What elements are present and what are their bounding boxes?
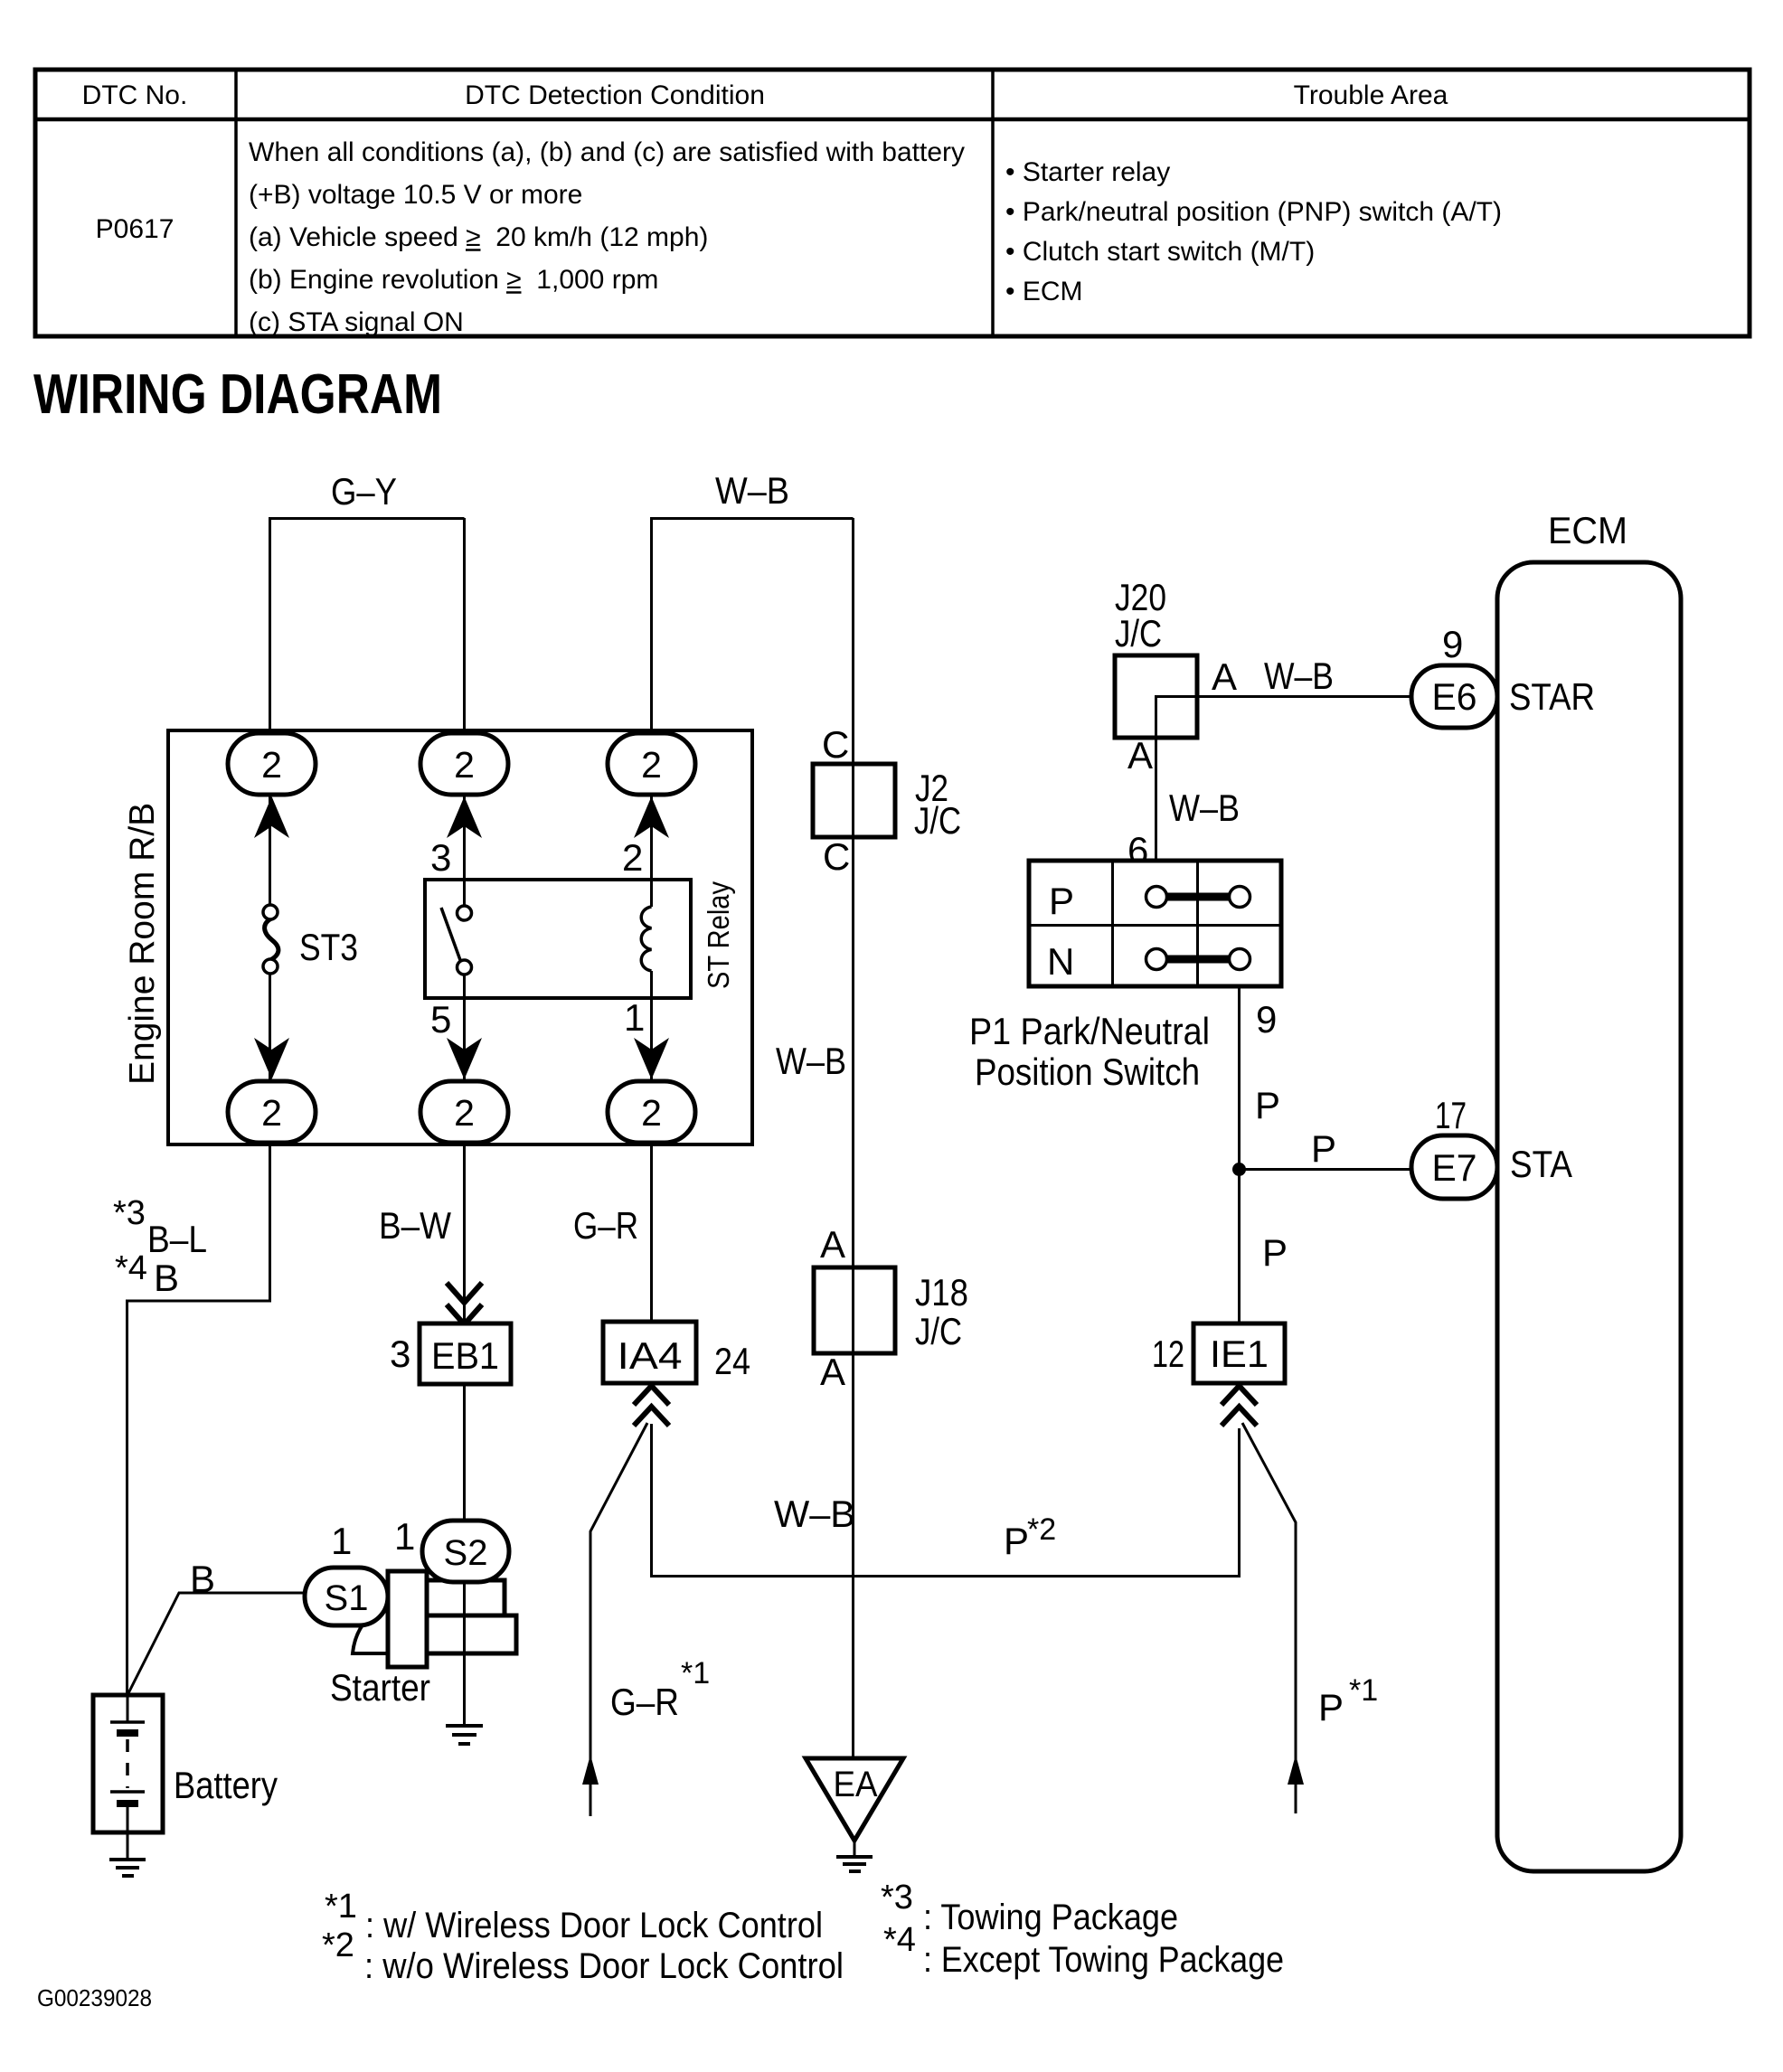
svg-text:G00239028: G00239028 [37, 1984, 152, 2011]
svg-text:Trouble Area: Trouble Area [1294, 80, 1448, 110]
svg-text:2: 2 [641, 744, 662, 786]
solid up arrow (col 3) [634, 796, 669, 838]
svg-text:2: 2 [641, 1092, 662, 1134]
wire J20 to E6 (W-B) [1156, 697, 1413, 739]
wire EA to ground [854, 1841, 856, 1856]
connector EB1 [420, 1323, 511, 1384]
wire starter to ground [463, 1582, 466, 1725]
svg-text:• ECM: • ECM [1005, 277, 1083, 306]
svg-text:P: P [1311, 1127, 1336, 1170]
svg-text:Battery: Battery [174, 1764, 278, 1806]
connector oval 2 (top, col 1) [228, 733, 316, 795]
wire column 4 W-B trunk down to EA ground [852, 518, 854, 1758]
wire column 2 (switch branch) [463, 518, 466, 1323]
svg-text:P0617: P0617 [96, 214, 175, 244]
svg-text:*4: *4 [883, 1921, 916, 1959]
svg-text:J/C: J/C [1115, 612, 1162, 655]
connector IA4 [603, 1322, 696, 1383]
svg-text:G–R: G–R [573, 1204, 638, 1247]
svg-text:G–R: G–R [610, 1681, 679, 1723]
svg-text:5: 5 [430, 998, 451, 1041]
connector E7 [1411, 1135, 1497, 1199]
connector IE1 [1193, 1323, 1285, 1383]
svg-text:12: 12 [1152, 1333, 1184, 1375]
ground EA triangle [806, 1758, 903, 1841]
svg-text:S2: S2 [444, 1533, 488, 1573]
wire W-B top loop (relay coil column to W-B trunk) [652, 519, 854, 733]
svg-text:2: 2 [622, 836, 643, 879]
svg-text:*3: *3 [113, 1194, 146, 1232]
solid down arrow (col 1) [254, 1038, 289, 1079]
svg-text:A: A [1212, 655, 1237, 698]
svg-text:*4: *4 [115, 1249, 147, 1287]
wire PNP pin 9 down to IE1 [1238, 986, 1241, 1323]
svg-text:W–B: W–B [1169, 786, 1240, 829]
junction J20 box [1115, 655, 1197, 738]
solid up arrow (col 2) [447, 796, 482, 838]
wire column 1 lower run to battery [127, 1143, 270, 1695]
connector S2 [422, 1521, 509, 1582]
solid down arrow (col 2) [447, 1038, 482, 1079]
svg-text:3: 3 [390, 1333, 410, 1375]
svg-text:N: N [1047, 940, 1074, 983]
svg-text:: w/o Wireless Door Lock Contr: : w/o Wireless Door Lock Control [364, 1946, 844, 1986]
svg-text:2: 2 [261, 1092, 282, 1134]
connector oval 2 (bottom, col 1) [228, 1081, 316, 1143]
P1 park/neutral position switch box [1029, 861, 1281, 986]
svg-text:(c) STA signal ON: (c) STA signal ON [249, 307, 464, 337]
ground symbol (EA) [836, 1857, 873, 1871]
wire S1 to battery (B) [127, 1593, 305, 1695]
svg-text:2: 2 [454, 744, 475, 786]
relay coil [641, 907, 651, 971]
svg-text:J/C: J/C [915, 1310, 962, 1352]
wire G-R *1 diagonal and drop [590, 1423, 647, 1816]
svg-text:W–B: W–B [774, 1493, 855, 1535]
double chevron below IA4 [634, 1386, 669, 1426]
svg-text:W–B: W–B [776, 1040, 846, 1082]
svg-text:EA: EA [834, 1765, 878, 1804]
svg-text:• Park/neutral position (PNP): • Park/neutral position (PNP) switch (A/… [1005, 197, 1502, 227]
arrowhead up (G-R *1 wire) [582, 1755, 599, 1785]
svg-text:C: C [822, 723, 849, 766]
table header text [82, 80, 1448, 110]
svg-text:EB1: EB1 [431, 1334, 499, 1377]
svg-text:*2: *2 [1027, 1512, 1056, 1547]
wire column 1 inside relay block (fuse branch) [269, 732, 271, 1301]
svg-text:1: 1 [394, 1515, 415, 1558]
svg-text:IE1: IE1 [1210, 1333, 1269, 1375]
ground symbol (starter) [446, 1726, 483, 1744]
svg-text:A: A [820, 1223, 845, 1266]
svg-text:C: C [823, 835, 850, 878]
svg-text:P: P [1049, 880, 1074, 922]
svg-text:1: 1 [624, 996, 645, 1039]
svg-text:A: A [820, 1351, 845, 1393]
solid up arrow (col 1) [254, 796, 289, 838]
starter body [353, 1571, 516, 1667]
svg-text:B–W: B–W [379, 1204, 451, 1247]
svg-text:A: A [1127, 734, 1153, 777]
svg-text:Starter: Starter [330, 1666, 430, 1709]
svg-text:STA: STA [1510, 1143, 1572, 1185]
svg-text:J18: J18 [915, 1271, 968, 1314]
svg-text:P: P [1255, 1084, 1280, 1126]
svg-text:3: 3 [430, 836, 451, 879]
table cell trouble area bullets [1005, 157, 1502, 306]
connector S1 [305, 1568, 388, 1625]
junction J2 box [813, 764, 895, 837]
wire G-Y top loop (fuse column to relay switch column) [270, 519, 465, 733]
svg-text:: w/ Wireless Door Lock Contro: : w/ Wireless Door Lock Control [365, 1906, 823, 1945]
svg-text:DTC No.: DTC No. [82, 80, 188, 110]
svg-text:*1: *1 [1349, 1673, 1378, 1708]
svg-text:9: 9 [1256, 998, 1277, 1041]
svg-text:• Starter relay: • Starter relay [1005, 157, 1170, 187]
svg-text:B: B [154, 1257, 179, 1299]
Engine Room R/B box [168, 730, 752, 1144]
wire P *1 diagonal and drop [1242, 1423, 1296, 1813]
svg-text:ECM: ECM [1548, 509, 1627, 551]
battery box [93, 1695, 163, 1832]
wire *2 run IA4 chevron to IE1 chevron [652, 1424, 1240, 1577]
svg-text:: Except Towing Package: : Except Towing Package [923, 1940, 1284, 1980]
arrowhead up (P *1 wire) [1288, 1755, 1304, 1785]
svg-text:(a) Vehicle speed ≥ 20 km/h (: (a) Vehicle speed ≥ 20 km/h (12 mph) [249, 222, 708, 252]
svg-text:17: 17 [1435, 1094, 1467, 1136]
svg-text:B: B [190, 1558, 215, 1600]
svg-text:P1 Park/Neutral: P1 Park/Neutral [969, 1010, 1210, 1052]
svg-text:2: 2 [454, 1092, 475, 1134]
junction J18 box [814, 1267, 895, 1353]
svg-text:E6: E6 [1432, 675, 1477, 718]
svg-text:*1: *1 [325, 1888, 357, 1926]
svg-text:IA4: IA4 [618, 1334, 683, 1377]
junction node dot [1232, 1163, 1246, 1176]
svg-text:(+B) voltage 10.5 V or more: (+B) voltage 10.5 V or more [249, 180, 582, 210]
relay switch contact circles and lever [441, 906, 472, 975]
svg-text:P: P [1004, 1520, 1029, 1562]
ECM box [1497, 562, 1681, 1871]
svg-text:2: 2 [261, 744, 282, 786]
solid down arrow (col 3) [634, 1038, 669, 1079]
svg-text:ST Relay: ST Relay [702, 881, 735, 989]
svg-text:W–B: W–B [1264, 655, 1334, 697]
ground symbol (battery) [109, 1860, 146, 1876]
wire battery to ground [127, 1832, 129, 1860]
svg-text:J/C: J/C [914, 799, 961, 842]
svg-text:Position Switch: Position Switch [975, 1050, 1200, 1093]
svg-text:1: 1 [331, 1520, 352, 1562]
svg-text:(b) Engine revolution ≥ 1,000: (b) Engine revolution ≥ 1,000 rpm [249, 265, 658, 295]
wire EB1 to S2 [463, 1384, 466, 1521]
connector oval 2 (bottom, col 3) [608, 1081, 695, 1143]
fuse ST3 [263, 905, 278, 974]
ST Relay box [425, 880, 691, 998]
svg-text:W–B: W–B [715, 469, 789, 512]
svg-text:B–L: B–L [147, 1218, 207, 1260]
DTC table outer border [35, 70, 1750, 336]
svg-text:24: 24 [714, 1340, 750, 1382]
svg-text:*1: *1 [681, 1656, 710, 1691]
svg-text:E7: E7 [1432, 1146, 1477, 1189]
svg-text:• Clutch start switch (M/T): • Clutch start switch (M/T) [1005, 237, 1315, 267]
svg-text:9: 9 [1442, 623, 1463, 665]
svg-text:When all conditions (a), (b) a: When all conditions (a), (b) and (c) are… [249, 137, 965, 167]
svg-text:: Towing Package: : Towing Package [923, 1898, 1178, 1937]
double chevron above EB1 [447, 1283, 482, 1324]
PNP N-row contacts [1146, 949, 1250, 970]
connector oval 2 (top, col 2) [420, 733, 508, 795]
double chevron below IE1 [1222, 1386, 1257, 1426]
PNP P-row contacts [1146, 887, 1250, 908]
battery cells [110, 1695, 145, 1832]
connector E6 [1411, 665, 1497, 728]
connector oval 2 (bottom, col 2) [420, 1081, 508, 1143]
svg-text:P: P [1318, 1686, 1344, 1728]
connector oval 2 (top, col 3) [608, 733, 695, 795]
wire junction to E7 (P) [1240, 1168, 1413, 1171]
svg-text:P: P [1262, 1231, 1288, 1274]
svg-text:Engine Room R/B: Engine Room R/B [123, 803, 162, 1085]
svg-text:G–Y: G–Y [331, 470, 397, 513]
wire column 3 (coil branch) [650, 518, 653, 1323]
wire J20 down to PNP pin 6 [1155, 738, 1157, 868]
svg-text:*2: *2 [322, 1926, 354, 1964]
svg-text:ST3: ST3 [299, 926, 358, 968]
svg-text:S1: S1 [325, 1578, 369, 1618]
svg-text:STAR: STAR [1509, 675, 1595, 718]
svg-text:*3: *3 [881, 1879, 913, 1917]
svg-text:WIRING DIAGRAM: WIRING DIAGRAM [33, 363, 442, 426]
table cell detection condition text [249, 137, 965, 337]
svg-text:DTC Detection Condition: DTC Detection Condition [465, 80, 765, 110]
